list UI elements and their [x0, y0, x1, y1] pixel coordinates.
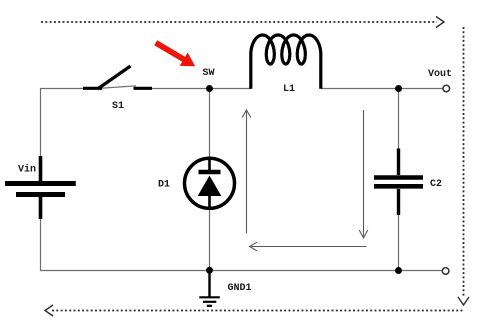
svg-text:GND1: GND1: [228, 283, 252, 294]
svg-text:L1: L1: [283, 84, 295, 95]
svg-text:Vin: Vin: [18, 164, 36, 176]
svg-text:SW: SW: [203, 68, 215, 79]
svg-text:S1: S1: [112, 101, 124, 112]
svg-text:Vout: Vout: [428, 69, 452, 80]
svg-text:C2: C2: [430, 179, 442, 190]
svg-text:D1: D1: [158, 180, 170, 191]
